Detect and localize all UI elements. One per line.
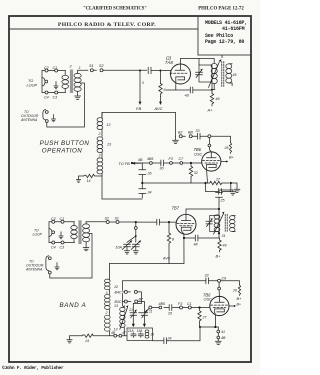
tube 7B6 band A cathode [214, 312, 217, 327]
svg-text:ANTENNA: ANTENNA [20, 118, 38, 122]
wire resistor 8 to return [168, 246, 170, 264]
T1 secondary top lead [78, 70, 88, 73]
T1 secondary tap lead [81, 83, 85, 127]
svg-text:13: 13 [114, 304, 118, 308]
wire b4 row [123, 292, 142, 312]
svg-text:C1: C1 [187, 302, 192, 306]
svg-text:24: 24 [167, 337, 172, 341]
padder box band A [127, 328, 153, 341]
svg-text:32: 32 [194, 171, 198, 175]
junction IF pri top [218, 208, 220, 210]
svg-text:S2: S2 [105, 217, 109, 221]
svg-text:©John F. Rider, Publisher: ©John F. Rider, Publisher [2, 364, 64, 371]
contact C4A [217, 330, 220, 333]
tube 7B6 right pin [221, 161, 227, 163]
svg-text:2: 2 [98, 132, 101, 136]
svg-text:33: 33 [205, 274, 209, 278]
svg-text:26: 26 [167, 312, 172, 316]
svg-text:F3: F3 [178, 302, 182, 306]
svg-text:33: 33 [196, 129, 200, 133]
ground (osc cathode) [231, 183, 240, 193]
svg-text:21: 21 [128, 308, 133, 312]
wire bus to tube grid [172, 162, 202, 164]
tube 7B6 plate [207, 152, 217, 158]
tube 7B6 band A grid lead [218, 282, 220, 296]
svg-text:A+: A+ [207, 108, 214, 113]
page border frame [9, 16, 251, 362]
IF sec stubs [232, 216, 235, 232]
ground (loop box) [54, 82, 58, 89]
svg-text:C4: C4 [44, 95, 49, 99]
tube 7B6 cathode box [207, 164, 217, 168]
antenna terminals bracket band A [46, 256, 49, 271]
wire coil bottom junction [102, 174, 142, 199]
title box [198, 16, 251, 55]
resistor 27 (band A) [198, 308, 201, 328]
wire plate to osc coil [181, 58, 215, 60]
svg-text:31: 31 [222, 234, 226, 238]
svg-text:LOOP: LOOP [33, 233, 43, 237]
wire FB drop [139, 71, 141, 103]
band A secondary top lead [85, 222, 87, 224]
arrow through inductor 11 [120, 308, 128, 330]
wire antenna bottom [47, 122, 84, 127]
IF sec winding [230, 216, 235, 220]
svg-text:16: 16 [150, 333, 154, 337]
resistor 32 [189, 163, 192, 183]
wire band A loop bottom [49, 242, 75, 244]
svg-text:B2: B2 [178, 131, 182, 135]
contact C6 (band A osc grid) [218, 279, 221, 282]
tube 7B7 envelope [176, 214, 196, 234]
tube 7B6 grids [203, 160, 221, 162]
tuning cap leads [127, 229, 136, 242]
ground (T1) [75, 96, 81, 99]
terminal loop band A [49, 229, 52, 232]
svg-text:B4C: B4C [115, 290, 122, 294]
tube 7B7 plate lead [186, 209, 219, 214]
wire bus to cap [136, 221, 157, 223]
contact C2 [45, 69, 48, 72]
T1 core [70, 70, 73, 94]
coil 13A [97, 158, 103, 162]
contact C4B [217, 336, 220, 339]
svg-text:LOOP: LOOP [27, 84, 38, 88]
svg-text:11: 11 [149, 310, 153, 314]
tube 7A8 grids [170, 72, 188, 74]
capacitor 26 [139, 170, 146, 175]
osc coil secondary [226, 64, 232, 69]
wire padder drop [141, 163, 143, 198]
capacitor C5 (series) [148, 67, 160, 73]
ground (trimmer 22) [143, 315, 145, 324]
junction FB node [139, 70, 141, 72]
IF pri winding (variable) [214, 215, 220, 219]
arrow through osc coil [209, 62, 220, 88]
svg-text:3: 3 [79, 66, 81, 70]
svg-text:2: 2 [105, 311, 108, 315]
svg-text:BB: BB [188, 131, 193, 135]
resistor 27 [206, 181, 230, 184]
terminal antenna 2b [48, 271, 51, 274]
svg-text:OSC: OSC [194, 153, 202, 157]
tube 7A8 envelope [171, 64, 191, 84]
wire IF bottom to resistor 49 [184, 233, 220, 238]
wire band A loop top [49, 221, 75, 223]
svg-text:49: 49 [223, 244, 227, 248]
wire below resistor 6 [160, 97, 162, 103]
svg-text:PHILCO RADIO & TELEV. CORP.: PHILCO RADIO & TELEV. CORP. [58, 22, 156, 28]
svg-text:"CLARIFIED SCHEMATICS": "CLARIFIED SCHEMATICS" [83, 7, 147, 12]
svg-text:41-616FM: 41-616FM [222, 26, 245, 32]
arrowhead FB [139, 102, 142, 105]
svg-text:B+: B+ [229, 156, 235, 160]
osc coil core [222, 62, 224, 87]
svg-text:PUSH BUTTON: PUSH BUTTON [40, 140, 90, 147]
contact S2b [106, 221, 109, 224]
tube 7A8 cathode lead [175, 80, 177, 90]
svg-text:6: 6 [164, 88, 166, 92]
wire cap 24 to osc return [167, 327, 201, 341]
junction cathode band A [214, 326, 216, 328]
junction band A bus [198, 306, 200, 308]
band A ant transformer primary [71, 226, 77, 230]
contact B4 [134, 290, 137, 293]
svg-text:26: 26 [147, 172, 152, 176]
resistor 49 [218, 238, 221, 252]
svg-text:21A: 21A [127, 329, 134, 333]
svg-text:S1: S1 [115, 217, 119, 221]
wire box feed [198, 59, 200, 66]
T1 secondary winding [74, 73, 81, 78]
svg-text:B+: B+ [237, 303, 242, 307]
junction y183 left [141, 182, 143, 184]
wire contact chain [217, 327, 219, 341]
tube 7B7 cathode [181, 231, 184, 264]
wire bus [132, 162, 149, 164]
svg-text:B3C: B3C [115, 300, 122, 304]
wire band A loop left [48, 222, 50, 243]
wire IF feed [219, 190, 233, 209]
svg-text:14: 14 [87, 179, 91, 183]
arrowhead AVC [159, 102, 162, 105]
header rule [9, 28, 198, 30]
wire band A bus [86, 221, 136, 223]
contact osc grid [208, 144, 211, 147]
junction cathode cap48 [183, 237, 185, 239]
svg-text:8: 8 [221, 55, 223, 59]
tube 7B6 band A envelope [210, 296, 229, 315]
resistor 49a [210, 94, 213, 107]
svg-text:BAND A: BAND A [59, 302, 86, 309]
wire to tuning contact [135, 222, 137, 226]
band A transformer core [78, 220, 81, 244]
ground (10A) [124, 247, 129, 254]
ground (cap 25) [230, 190, 236, 195]
svg-text:26: 26 [224, 146, 229, 150]
ground (resistor 14) [76, 176, 84, 183]
coil 13 (band A) [105, 295, 111, 299]
svg-text:AVC: AVC [154, 106, 163, 111]
svg-text:AVC: AVC [162, 257, 171, 261]
junction resistor 32 [190, 162, 192, 164]
capacitor 16 (series) [157, 219, 177, 225]
svg-text:ANTENNA: ANTENNA [25, 268, 43, 272]
wire grid to tube [162, 71, 171, 73]
band A secondary ground [83, 242, 89, 251]
wire B2 row gaps [182, 135, 197, 137]
T1 secondary bottom to ground [77, 91, 79, 96]
svg-text:10A: 10A [116, 246, 123, 250]
tube 7B6 band A plate [215, 296, 225, 302]
IF padder box [210, 216, 219, 232]
capacitor cathode bypass [206, 183, 231, 195]
capacitor 11 (diagonal feed) [139, 309, 150, 313]
wire band A mid bus [152, 307, 210, 309]
ground (band A loop) [59, 232, 63, 239]
tube 7B6 envelope [202, 152, 221, 171]
junction cathode right [230, 182, 232, 184]
svg-text:TO FB: TO FB [119, 162, 131, 166]
svg-text:47: 47 [122, 331, 126, 335]
junction cathode left [204, 182, 206, 184]
junction IF pri bottom [218, 232, 220, 234]
wire band A osc top [123, 281, 240, 285]
wire cathode return [142, 182, 205, 184]
tube 7B6 band A cathode box [215, 309, 225, 313]
svg-text:48: 48 [194, 243, 198, 247]
svg-text:C3: C3 [53, 95, 58, 99]
capacitor 48 [195, 235, 198, 241]
svg-text:OPERATION: OPERATION [42, 148, 83, 155]
wire band A cathode row [200, 326, 219, 328]
svg-text:C4: C4 [51, 245, 56, 249]
variable inductor 11 [120, 307, 125, 311]
capacitor 33 (band A) [206, 278, 209, 284]
ground (band A antenna) [55, 263, 59, 270]
wire band A bottom run [109, 332, 160, 341]
svg-text:4B: 4B [221, 336, 226, 340]
resistor 6 [159, 84, 162, 97]
svg-text:45: 45 [233, 73, 237, 77]
svg-text:7A8: 7A8 [165, 60, 173, 65]
junction resistor 8 [168, 221, 170, 223]
svg-text:14: 14 [85, 339, 89, 343]
svg-text:C3: C3 [60, 245, 65, 249]
svg-text:F3: F3 [169, 157, 173, 161]
resistor 14 [84, 174, 102, 177]
svg-text:8: 8 [172, 238, 174, 242]
capacitor 25 [216, 193, 223, 198]
box bottom lead [211, 82, 213, 94]
wire +B line [166, 89, 212, 91]
ground (B2 row) [173, 136, 179, 143]
svg-text:+B: +B [184, 94, 189, 98]
wire band A pb top [123, 281, 125, 308]
tube 7A8 plate [175, 59, 185, 71]
contact tuning [134, 227, 137, 230]
terminal antenna 1b [48, 257, 51, 260]
wire coil bottom band A [108, 331, 110, 336]
contact C1 [55, 69, 58, 72]
tube 7B7 plate [181, 214, 191, 220]
IF core [225, 214, 227, 232]
contact C4b [52, 241, 55, 244]
svg-text:TO: TO [28, 79, 33, 83]
wire AVC drop [160, 71, 162, 84]
ground (10) [133, 247, 138, 254]
ground (resistor 14 band A) [67, 336, 83, 343]
band A transformer secondary [83, 224, 90, 229]
capacitor 30 [152, 160, 169, 166]
svg-text:30: 30 [160, 167, 164, 171]
wire to corner [211, 136, 231, 142]
variable capacitor 10 [131, 241, 140, 249]
antenna terminals bracket [43, 110, 46, 121]
svg-text:26: 26 [232, 289, 237, 293]
terminal antenna 2 [45, 120, 48, 123]
T1 primary winding [62, 75, 69, 79]
svg-text:3: 3 [99, 154, 101, 158]
trimmer capacitor 29 [206, 219, 213, 227]
svg-text:12: 12 [114, 285, 118, 289]
svg-text:49: 49 [216, 97, 220, 101]
resistor 8 [167, 222, 170, 246]
osc coil primary (variable) [211, 63, 217, 68]
tube 7B6 band A grids [211, 304, 229, 306]
junction osc bottom [211, 89, 213, 91]
svg-text:4B: 4B [138, 158, 143, 162]
coil 12 [97, 118, 103, 122]
capacitor +B bypass [190, 87, 193, 93]
junction tuning node [135, 221, 137, 223]
svg-text:12: 12 [107, 123, 111, 127]
contact B3 [135, 300, 138, 303]
terminal antenna 1 [45, 111, 48, 114]
contact C3 [55, 91, 58, 94]
junction split [135, 235, 137, 237]
svg-text:7B6: 7B6 [194, 147, 202, 152]
svg-text:19A: 19A [137, 329, 143, 333]
label 15 [145, 330, 149, 333]
capacitor 34 [139, 189, 146, 194]
svg-text:S1: S1 [89, 64, 94, 68]
osc coil secondary stubs [229, 64, 232, 86]
ground (contact chain) [215, 341, 221, 344]
wire contact gap [93, 69, 147, 71]
svg-text:4B5: 4B5 [147, 157, 153, 161]
svg-text:3: 3 [142, 81, 144, 85]
arrow TO FB [134, 162, 141, 164]
resistor 26 (band A) [238, 285, 240, 296]
arrow through IF pri [214, 214, 224, 235]
svg-text:7B7: 7B7 [172, 206, 180, 211]
svg-text:B+: B+ [216, 255, 222, 259]
svg-text:4B5: 4B5 [159, 302, 165, 306]
ground (trimmer 21) [132, 315, 134, 324]
contact C3b [61, 241, 64, 244]
wire cathode return band A [109, 263, 184, 265]
tube 7A8 cathode box [176, 77, 185, 81]
wire loop bottom [42, 92, 66, 94]
band A bus left contact [149, 306, 152, 309]
capacitor 33 [197, 133, 208, 139]
trimmer capacitor 4 [196, 70, 203, 78]
wire pushbutton top [102, 113, 176, 118]
tube 7B6 band A right pin [229, 305, 234, 307]
capacitor 24 [161, 338, 167, 344]
svg-text:B+: B+ [237, 297, 243, 301]
wire loop top [42, 70, 66, 72]
svg-text:Page 12-79, 80: Page 12-79, 80 [205, 39, 244, 45]
svg-text:13: 13 [107, 143, 111, 147]
contact C4 [45, 91, 48, 94]
wire loop left [41, 71, 43, 93]
capacitor 26C [169, 305, 172, 311]
svg-text:25: 25 [220, 199, 225, 203]
wire pushbutton to B2 [175, 113, 177, 137]
tube 7B6 cathode [206, 168, 209, 183]
terminal loop [42, 78, 45, 81]
band A secondary tap [50, 234, 92, 279]
svg-text:PHILCO PAGE 12-72: PHILCO PAGE 12-72 [198, 7, 244, 12]
osc padder box [199, 65, 212, 82]
resistor 26B [229, 143, 231, 154]
coil 12 (band A) [105, 279, 111, 283]
coil 13A (band A) [105, 315, 111, 319]
svg-text:C6: C6 [222, 277, 227, 281]
svg-text:FB: FB [136, 106, 141, 111]
ground (antenna) [51, 115, 55, 122]
svg-text:34: 34 [148, 191, 152, 195]
contact C1b [61, 220, 64, 223]
svg-text:41: 41 [221, 330, 225, 334]
wire b3 row [123, 302, 145, 313]
junction AVC node [160, 70, 162, 72]
contact S1b [116, 221, 119, 224]
tube 7B6 grid cap lead [209, 138, 211, 152]
junction bus start [131, 162, 133, 164]
tube 7B7 cathode box [181, 227, 191, 231]
contact band A osc grid2 [218, 287, 221, 290]
coil 13 [97, 137, 103, 141]
trimmer capacitor 22 [141, 311, 148, 318]
resistor 14 (band A) [83, 334, 110, 337]
contact C4 (osc grid) [208, 135, 211, 138]
contact C2b [52, 220, 55, 223]
tube 7B7 grids [177, 222, 195, 224]
